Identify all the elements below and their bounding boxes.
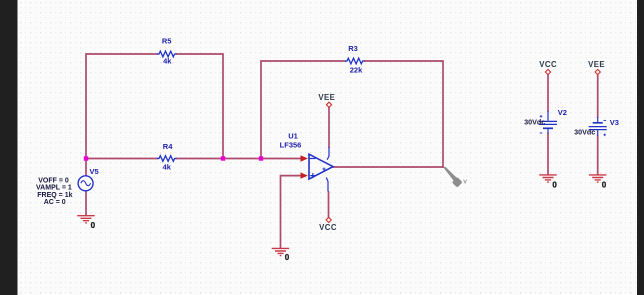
svg-text:VOFF = 0: VOFF = 0 bbox=[38, 178, 69, 185]
svg-text:VEE: VEE bbox=[318, 93, 335, 102]
svg-text:R4: R4 bbox=[163, 142, 173, 151]
svg-text:U1: U1 bbox=[288, 131, 298, 140]
svg-text:4k: 4k bbox=[163, 57, 172, 66]
svg-text:0: 0 bbox=[552, 181, 557, 190]
svg-text:LF356: LF356 bbox=[280, 140, 302, 149]
svg-text:0: 0 bbox=[602, 181, 607, 190]
svg-text:4k: 4k bbox=[163, 162, 172, 171]
svg-text:V3: V3 bbox=[610, 118, 619, 127]
svg-text:0: 0 bbox=[285, 253, 290, 262]
svg-text:30Vdc: 30Vdc bbox=[574, 127, 595, 136]
svg-text:FREQ = 1k: FREQ = 1k bbox=[37, 192, 72, 199]
svg-text:VCC: VCC bbox=[319, 223, 337, 232]
svg-text:0: 0 bbox=[91, 221, 96, 230]
svg-text:22k: 22k bbox=[350, 66, 363, 75]
svg-text:V5: V5 bbox=[90, 167, 99, 176]
svg-text:30Vdc: 30Vdc bbox=[524, 117, 545, 126]
svg-text:R5: R5 bbox=[162, 36, 172, 45]
svg-text:VCC: VCC bbox=[539, 60, 557, 69]
svg-text:V2: V2 bbox=[558, 108, 567, 117]
svg-text:R3: R3 bbox=[348, 44, 358, 53]
svg-text:VEE: VEE bbox=[588, 60, 605, 69]
svg-text:AC = 0: AC = 0 bbox=[44, 199, 66, 206]
svg-text:VAMPL = 1: VAMPL = 1 bbox=[36, 185, 72, 192]
